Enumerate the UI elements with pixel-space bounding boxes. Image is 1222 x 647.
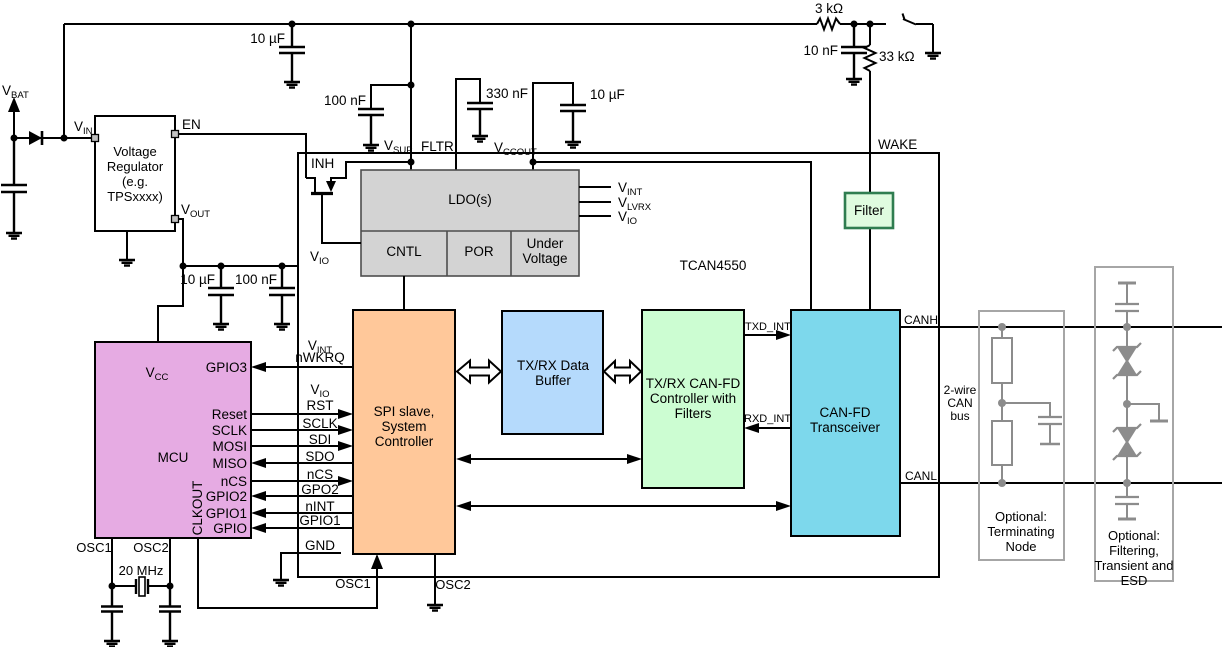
svg-text:Reset: Reset bbox=[212, 407, 248, 422]
svg-text:33 kΩ: 33 kΩ bbox=[879, 49, 915, 64]
capacitor termination bbox=[1002, 403, 1050, 417]
wire CANL bus line bbox=[900, 482, 1222, 484]
ground regulator bbox=[126, 231, 128, 260]
capacitor C 10uF (top left) bbox=[279, 24, 305, 82]
wire double arrow SPI to controller bbox=[468, 458, 630, 460]
svg-text:Optional:: Optional: bbox=[995, 509, 1047, 524]
ground switch bbox=[925, 53, 941, 59]
wire SCLK bbox=[251, 429, 339, 431]
svg-text:GND: GND bbox=[305, 538, 335, 553]
capacitor 100nF at VOUT bbox=[269, 266, 295, 324]
wire VBAT stub with up arrow bbox=[13, 108, 15, 138]
capacitor crystal right bbox=[159, 586, 181, 641]
crystal Y1 20MHz bbox=[112, 585, 170, 587]
node termination midpoint bbox=[1001, 383, 1003, 421]
wire TXD_INT bbox=[744, 334, 778, 336]
pin VIN square bbox=[92, 135, 99, 142]
node crystal right bbox=[167, 583, 174, 590]
TVS diode lower bbox=[1126, 404, 1128, 428]
svg-text:GPIO3: GPIO3 bbox=[206, 360, 247, 375]
svg-text:2-wire: 2-wire bbox=[944, 383, 977, 397]
svg-text:MCU: MCU bbox=[158, 450, 189, 465]
svg-text:POR: POR bbox=[464, 244, 494, 259]
svg-text:20 MHz: 20 MHz bbox=[119, 563, 164, 578]
wire nCS bbox=[251, 480, 339, 482]
node VSUP / INH wire bbox=[408, 159, 415, 166]
optional terminating node box bbox=[979, 311, 1064, 560]
wire VCCOUT vertical bbox=[533, 83, 573, 170]
transistor Q1 channel bar bbox=[311, 192, 333, 195]
node 33k tap bbox=[867, 21, 874, 28]
svg-text:Voltage: Voltage bbox=[113, 144, 156, 159]
node CANL ESD tap bbox=[1123, 479, 1131, 487]
node VOUT rail bbox=[180, 263, 187, 270]
node junction rail / 10uF cap bbox=[289, 21, 296, 28]
node VSUP / 100nF bbox=[408, 82, 415, 89]
wire INH to VSUP bbox=[331, 162, 411, 182]
svg-text:CAN: CAN bbox=[947, 396, 972, 410]
wire RXD_INT bbox=[757, 427, 791, 429]
svg-text:100 nF: 100 nF bbox=[235, 272, 277, 287]
capacitor crystal left bbox=[101, 586, 123, 641]
resistor 33k vertical bbox=[865, 24, 876, 193]
svg-text:nWKRQ: nWKRQ bbox=[295, 350, 345, 365]
svg-text:10 µF: 10 µF bbox=[180, 272, 215, 287]
svg-text:ESD: ESD bbox=[1121, 573, 1148, 588]
svg-text:CANH: CANH bbox=[904, 313, 938, 327]
switch S1 bbox=[903, 14, 917, 25]
svg-text:OSC1: OSC1 bbox=[76, 540, 111, 555]
node VBAT junction bbox=[11, 135, 18, 142]
svg-text:10 µF: 10 µF bbox=[250, 31, 285, 46]
svg-text:GPIO2: GPIO2 bbox=[206, 489, 247, 504]
wire MOSI to SDI bbox=[251, 445, 339, 447]
svg-text:TX/RX CAN-FD: TX/RX CAN-FD bbox=[646, 376, 741, 391]
block double arrow buffer to controller bbox=[604, 361, 641, 382]
svg-text:INH: INH bbox=[311, 156, 334, 171]
svg-text:LDO(s): LDO(s) bbox=[448, 192, 492, 207]
wire OSC1 from MCU bbox=[111, 538, 113, 586]
wire left vertical from rail to VBAT node bbox=[63, 24, 65, 138]
svg-text:Filtering,: Filtering, bbox=[1109, 543, 1159, 558]
svg-text:SCLK: SCLK bbox=[302, 416, 337, 431]
wire CNTL to SPI controller bbox=[403, 276, 405, 310]
svg-text:Transceiver: Transceiver bbox=[810, 420, 881, 435]
ground 10nF bbox=[846, 79, 862, 85]
ground crystal right bbox=[162, 641, 178, 647]
svg-text:100 nF: 100 nF bbox=[324, 93, 366, 108]
wire nWKRQ to GPIO3 bbox=[265, 366, 353, 368]
node CANL termination tap bbox=[998, 479, 1006, 487]
svg-text:nCS: nCS bbox=[221, 474, 247, 489]
svg-text:SCLK: SCLK bbox=[212, 423, 247, 438]
optional ESD filtering box bbox=[1095, 267, 1173, 581]
svg-text:CLKOUT: CLKOUT bbox=[190, 481, 205, 536]
node rail/diode junction bbox=[61, 135, 68, 142]
TVS diode upper bbox=[1126, 327, 1128, 347]
capacitor 100nF at VSUP bbox=[371, 85, 411, 109]
resistor termination R upper bbox=[1001, 327, 1003, 338]
wire nINT to GPIO1 bbox=[265, 512, 353, 514]
node CANH ESD tap bbox=[1123, 323, 1131, 331]
svg-text:OSC1: OSC1 bbox=[335, 576, 370, 591]
wire EN to INH transistor gate bbox=[178, 134, 306, 178]
wire Reset to RST bbox=[251, 413, 339, 415]
MCU block bbox=[95, 342, 251, 538]
svg-text:Transient and: Transient and bbox=[1094, 558, 1173, 573]
pin VLVRX stub bbox=[579, 201, 611, 203]
svg-text:EN: EN bbox=[182, 117, 201, 132]
ground GND pin bbox=[273, 580, 289, 586]
wire OSC2 from MCU bbox=[169, 538, 171, 586]
resistor 3k on top rail bbox=[817, 19, 840, 30]
wire VCCOUT rail to transceiver bbox=[533, 162, 811, 310]
ground 330nF bbox=[472, 136, 488, 142]
wire CANH bus line bbox=[900, 326, 1222, 328]
wire VOUT down to VCC rail bbox=[178, 219, 183, 266]
svg-text:nCS: nCS bbox=[307, 467, 333, 482]
resistor termination R lower bbox=[992, 421, 1012, 465]
svg-text:FLTR: FLTR bbox=[421, 139, 454, 154]
pin VIO stub bbox=[579, 215, 611, 217]
TCAN4550 chip outline bbox=[298, 153, 939, 577]
svg-text:Under: Under bbox=[527, 236, 564, 251]
svg-text:SPI slave,: SPI slave, bbox=[374, 404, 435, 419]
wire VSUP vertical bbox=[410, 24, 412, 170]
svg-text:Node: Node bbox=[1005, 539, 1036, 554]
svg-text:OSC2: OSC2 bbox=[435, 577, 470, 592]
svg-text:Controller with: Controller with bbox=[650, 391, 736, 406]
svg-text:10 nF: 10 nF bbox=[803, 43, 838, 58]
diode D1 (series reverse protection) bbox=[29, 131, 42, 145]
svg-text:nINT: nINT bbox=[305, 499, 334, 514]
ground for VBAT cap bbox=[6, 233, 22, 239]
svg-text:CAN-FD: CAN-FD bbox=[820, 405, 871, 420]
pin VINT stub bbox=[579, 186, 611, 188]
wire GPIO1 to GPIO bbox=[265, 527, 353, 529]
node 100nF tap bbox=[279, 263, 286, 270]
capacitor 10uF at VOUT bbox=[208, 266, 234, 324]
capacitor at VBAT input bbox=[1, 138, 27, 233]
capacitor 10nF bbox=[841, 24, 867, 79]
voltage regulator U1 box bbox=[95, 116, 175, 231]
TX/RX Data Buffer block bbox=[502, 311, 603, 434]
svg-text:GPIO1: GPIO1 bbox=[206, 506, 247, 521]
svg-text:Optional:: Optional: bbox=[1108, 528, 1160, 543]
wire VBAT to VIN bbox=[14, 137, 95, 139]
svg-text:RST: RST bbox=[307, 398, 334, 413]
wire FLTR vertical bbox=[456, 79, 480, 170]
LDO(s) block bbox=[361, 170, 579, 276]
svg-text:CNTL: CNTL bbox=[386, 244, 422, 259]
svg-text:330 nF: 330 nF bbox=[486, 86, 528, 101]
wire GND from SPI bbox=[281, 553, 341, 580]
svg-text:WAKE: WAKE bbox=[878, 137, 917, 152]
ground VOUT 100nF bbox=[274, 324, 290, 330]
Filter block bbox=[845, 193, 893, 228]
capacitor 330nF at FLTR bbox=[467, 103, 493, 136]
svg-text:RXD_INT: RXD_INT bbox=[744, 413, 791, 425]
svg-text:(e.g.: (e.g. bbox=[122, 174, 148, 189]
svg-text:Voltage: Voltage bbox=[522, 251, 567, 266]
svg-text:GPIO: GPIO bbox=[213, 521, 247, 536]
svg-text:OSC2: OSC2 bbox=[133, 540, 168, 555]
node ESD midpoint bbox=[1123, 400, 1131, 408]
svg-text:Controller: Controller bbox=[375, 434, 434, 449]
node junction rail / VSUP bbox=[408, 21, 415, 28]
wire GPO2 to GPIO2 bbox=[265, 495, 353, 497]
svg-text:Buffer: Buffer bbox=[535, 373, 571, 388]
pin EN square bbox=[172, 131, 179, 138]
svg-text:10 µF: 10 µF bbox=[590, 87, 625, 102]
svg-text:System: System bbox=[381, 419, 426, 434]
svg-text:CANL: CANL bbox=[905, 469, 937, 483]
svg-text:MOSI: MOSI bbox=[212, 439, 247, 454]
svg-text:3 kΩ: 3 kΩ bbox=[815, 1, 843, 16]
svg-text:TPSxxxx): TPSxxxx) bbox=[107, 189, 163, 204]
wire Q1 source to CNTL (VIO) bbox=[322, 195, 361, 243]
svg-text:bus: bus bbox=[950, 409, 969, 423]
svg-text:GPO2: GPO2 bbox=[301, 482, 339, 497]
ground VOUT 10uF bbox=[213, 324, 229, 330]
wire CLKOUT to OSC1 of TCAN bbox=[198, 538, 377, 608]
ground 10uF VCCOUT bbox=[565, 142, 581, 148]
wire VCC rail to chip edge bbox=[183, 265, 298, 267]
ground 100nF VSUP bbox=[363, 145, 379, 151]
svg-text:Terminating: Terminating bbox=[987, 524, 1054, 539]
transistor Q1 gate path from EN bbox=[306, 178, 315, 192]
svg-text:MISO: MISO bbox=[212, 456, 247, 471]
ground for 10uF top cap bbox=[284, 82, 300, 88]
node CANH termination tap bbox=[998, 323, 1006, 331]
TX/RX CAN-FD Controller block bbox=[642, 310, 744, 488]
wire WAKE into transceiver bbox=[869, 193, 871, 310]
block double arrow SPI to buffer bbox=[457, 361, 501, 383]
wire top supply rail bbox=[64, 23, 886, 25]
svg-text:GPIO1: GPIO1 bbox=[299, 513, 340, 528]
ground OSC2 bbox=[427, 605, 443, 611]
wire SDO to MISO bbox=[265, 462, 353, 464]
CAN-FD Transceiver block bbox=[791, 310, 900, 536]
wire double arrow SPI to transceiver bbox=[468, 505, 779, 507]
svg-text:SDO: SDO bbox=[305, 449, 334, 464]
capacitor 10uF at VCCOUT bbox=[560, 105, 586, 142]
node 10uF tap bbox=[218, 263, 225, 270]
node 10nF tap bbox=[851, 21, 858, 28]
svg-text:Filter: Filter bbox=[854, 203, 885, 218]
wire VCC branch down-left to MCU bbox=[158, 266, 183, 342]
node VCCOUT rail bbox=[530, 159, 537, 166]
svg-text:TCAN4550: TCAN4550 bbox=[680, 258, 747, 273]
svg-text:Filters: Filters bbox=[675, 406, 712, 421]
transistor Q1 INH switch drain arrow bbox=[326, 181, 336, 192]
wire OSC2 of TCAN to ground bbox=[434, 554, 436, 605]
svg-text:TXD_INT: TXD_INT bbox=[745, 321, 791, 333]
ground crystal left bbox=[104, 641, 120, 647]
ground ESD midpoint bbox=[1127, 404, 1159, 420]
capacitor ESD top bbox=[1118, 282, 1136, 285]
node crystal left bbox=[109, 583, 116, 590]
svg-text:Regulator: Regulator bbox=[107, 159, 164, 174]
pin VOUT square bbox=[172, 216, 179, 223]
svg-text:TX/RX Data: TX/RX Data bbox=[517, 358, 590, 373]
SPI slave System Controller block bbox=[353, 310, 455, 554]
svg-text:SDI: SDI bbox=[309, 432, 332, 447]
capacitor ESD bottom bbox=[1126, 483, 1128, 497]
